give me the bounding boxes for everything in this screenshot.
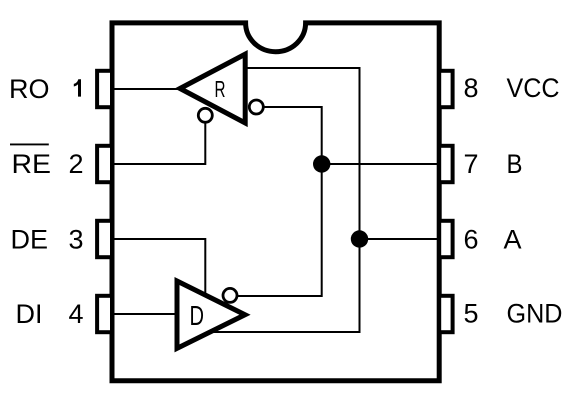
overline for RE — [10, 143, 49, 145]
driver inverting output bubble — [223, 288, 237, 302]
pin 5 stub — [439, 296, 452, 332]
svg-text:4: 4 — [68, 299, 83, 329]
pin 6 stub — [439, 221, 452, 257]
junction dot net A — [351, 230, 368, 247]
svg-text:D: D — [190, 300, 205, 331]
svg-text:R: R — [215, 76, 226, 102]
svg-text:8: 8 — [463, 73, 478, 103]
pin 7 stub — [439, 146, 452, 182]
wire net A to pin 6 — [360, 238, 440, 240]
svg-text:B: B — [507, 149, 523, 179]
svg-text:VCC: VCC — [507, 73, 560, 103]
receiver inverting input bubble — [249, 100, 263, 114]
svg-text:DE: DE — [11, 225, 49, 255]
pin number 1 — [74, 79, 81, 96]
wire net B to pin 7 — [322, 163, 440, 165]
IC body U1 (DIP-8 outline with notch) — [112, 23, 439, 381]
wire net B: receiver inverting bubble to vertical bus — [237, 107, 322, 296]
wire pin4 DI to driver input — [112, 313, 178, 315]
wire pin1 RO to receiver output — [112, 88, 180, 90]
pin 3 stub — [97, 221, 112, 257]
svg-text:RE: RE — [12, 149, 52, 179]
svg-text:3: 3 — [68, 225, 83, 255]
receiver R triangle — [180, 54, 245, 123]
receiver enable bubble — [198, 108, 212, 122]
wire pin2 RE to receiver enable bubble — [112, 122, 205, 164]
svg-text:6: 6 — [463, 225, 478, 255]
pin 8 stub — [439, 71, 452, 107]
svg-text:2: 2 — [68, 149, 83, 179]
svg-text:7: 7 — [463, 149, 478, 179]
driver D triangle — [177, 281, 245, 348]
pin 2 stub — [97, 146, 112, 182]
svg-text:5: 5 — [463, 298, 478, 328]
pin 4 stub — [97, 296, 112, 332]
svg-text:A: A — [504, 225, 522, 255]
junction dot net B — [313, 155, 330, 172]
svg-text:GND: GND — [507, 298, 563, 328]
pin 1 stub — [97, 71, 112, 107]
svg-text:DI: DI — [16, 299, 43, 329]
wire net A: receiver noninverting input to vertical bus — [211, 68, 360, 332]
wire pin3 DE to driver enable — [112, 239, 205, 295]
svg-text:RO: RO — [9, 74, 50, 104]
